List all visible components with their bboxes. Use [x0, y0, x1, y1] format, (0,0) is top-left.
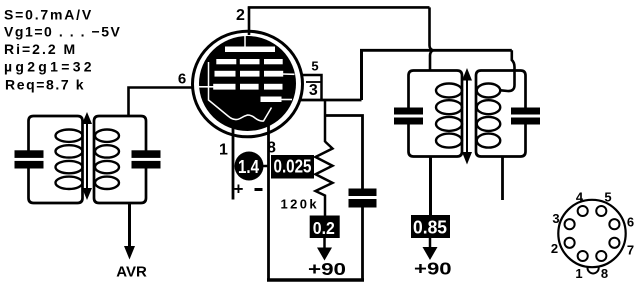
AVR output wire	[128, 203, 131, 248]
svg-text:3: 3	[552, 211, 559, 226]
anode plate bar (white)	[225, 47, 275, 53]
svg-text:0.85: 0.85	[413, 217, 447, 237]
svg-text:AVR: AVR	[116, 264, 147, 281]
pin 1 wire (filament +)	[232, 120, 235, 200]
svg-text:5: 5	[604, 190, 611, 205]
transformer T1 right tuned-circuit outline	[94, 116, 146, 203]
socket outline	[558, 200, 625, 267]
pin 8 wire (filament -)	[267, 120, 270, 280]
white pin leads inside tube	[199, 74, 295, 100]
svg-text:8: 8	[601, 266, 608, 281]
coil L1 (4 loops)	[56, 130, 83, 190]
coil L2 (4 loops)	[95, 130, 119, 190]
svg-text:120k: 120k	[281, 197, 320, 212]
wire T2 secondary output stub	[501, 157, 504, 201]
grid dashes row2	[215, 71, 236, 77]
battery B1 1.4V	[235, 152, 264, 181]
current box 0.85	[411, 215, 450, 238]
filament current box 0.025	[271, 155, 314, 179]
+90 arrowhead (anode supply)	[423, 247, 438, 260]
tube V1 electrode disc	[199, 36, 296, 131]
parameter text block	[4, 7, 121, 93]
tube V1 envelope	[193, 31, 303, 137]
svg-text:1: 1	[219, 142, 228, 159]
battery to pin8 stub	[262, 165, 269, 168]
anode lead (white)	[244, 35, 246, 47]
svg-text:2: 2	[236, 7, 245, 24]
svg-text:7: 7	[627, 243, 634, 258]
AVR arrowhead	[124, 246, 135, 260]
wire below 0.85 box	[429, 237, 432, 249]
svg-text:Ri=2.2 M: Ri=2.2 M	[4, 41, 77, 57]
current box 0.2	[310, 216, 340, 239]
wire grid g3 (pin 6) to T1 secondary top	[129, 88, 194, 117]
transformer T2 secondary outline	[476, 71, 526, 157]
pin 3 lead wire	[300, 99, 362, 102]
anode top rail wire	[248, 6, 430, 9]
grid dash row4 (g4)	[261, 97, 282, 103]
socket key notch	[587, 267, 598, 274]
svg-text:6: 6	[178, 71, 186, 88]
tuning arrow T1	[82, 112, 92, 200]
wire T2 primary bottom to 0.85	[429, 157, 432, 218]
tuning arrow T2	[462, 68, 472, 165]
wire screen node down to resistor	[324, 100, 327, 142]
svg-text:2: 2	[551, 241, 558, 256]
ground return rail	[267, 278, 364, 281]
battery polarity -	[255, 188, 263, 191]
transformer T1 left tuned-circuit outline	[29, 116, 83, 203]
screen rail wire	[360, 49, 512, 52]
svg-text:S=0.7mA/V: S=0.7mA/V	[4, 7, 93, 23]
svg-text:6: 6	[627, 215, 634, 230]
capacitor C2 plates	[132, 150, 161, 158]
wire rail down to junction	[430, 7, 434, 70]
pin 5 lead wire	[302, 75, 322, 100]
svg-text:1: 1	[575, 266, 582, 281]
coil L4 (4 loops)	[477, 84, 501, 148]
svg-text:Vg1=0 . . . −5V: Vg1=0 . . . −5V	[4, 24, 121, 40]
wire C3 to ground rail	[361, 208, 364, 280]
grid dashes row1	[213, 59, 283, 102]
capacitor C1 plates	[15, 150, 44, 158]
capacitor C4 plates	[394, 108, 423, 115]
svg-text:3: 3	[309, 82, 318, 99]
capacitor C3 plates	[349, 189, 377, 197]
svg-text:µg2g1=32: µg2g1=32	[4, 59, 95, 75]
svg-text:+: +	[234, 180, 244, 199]
wire screen node up to rail	[360, 50, 363, 100]
svg-text:0.2: 0.2	[313, 218, 335, 238]
svg-text:4: 4	[576, 190, 584, 205]
transformer T2 primary outline	[409, 71, 463, 157]
cathode filament (white)	[209, 62, 272, 121]
wire rail tap to L4 top loop	[501, 50, 515, 91]
svg-text:Req=8.7 k: Req=8.7 k	[5, 77, 85, 93]
+90 arrowhead (screen supply)	[317, 248, 332, 261]
coil L3 (4 loops)	[436, 84, 462, 148]
svg-text:0.025: 0.025	[274, 157, 312, 177]
capacitor C5 plates	[511, 108, 540, 115]
grid dashes row3	[213, 84, 235, 90]
pin 2 wire	[248, 7, 251, 35]
label-3 box line	[306, 81, 322, 83]
svg-text:+90: +90	[414, 258, 452, 278]
wire below 0.2 box	[323, 238, 326, 249]
resistor 120k zigzag	[316, 142, 333, 219]
svg-text:5: 5	[311, 59, 318, 74]
svg-text:+90: +90	[308, 259, 346, 279]
svg-text:1.4: 1.4	[238, 157, 259, 177]
socket pin numbers	[551, 190, 634, 282]
socket pin holes	[565, 206, 620, 261]
wire screen bypass branch	[325, 116, 363, 189]
